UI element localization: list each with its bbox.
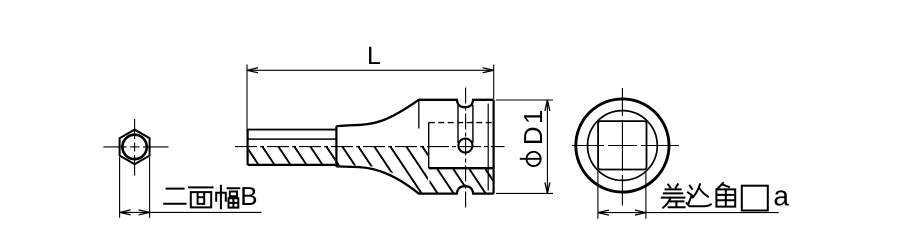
- extension line left (hex width): [119, 157, 121, 218]
- centerline vertical (hex view): [134, 119, 136, 176]
- arrowhead a right: [635, 210, 646, 215]
- square hole hidden top line (dashed): [429, 122, 494, 124]
- hatching cylinder wall left of hole: [210, 140, 556, 203]
- centerline vertical (right view): [621, 88, 623, 206]
- inner circle (chamfer): [588, 111, 658, 181]
- extension line right (square a): [645, 171, 647, 219]
- label a: [775, 190, 789, 205]
- dimension L: [247, 47, 494, 133]
- label L: [369, 47, 380, 64]
- dimension line a with leader: [598, 212, 779, 214]
- bit top edge: [248, 129, 337, 131]
- label phi symbol (rotated): [527, 152, 541, 166]
- arrowhead left: [120, 210, 131, 215]
- centerline horizontal (hex view): [103, 146, 168, 148]
- bit bottom edge (section boundary): [248, 164, 337, 166]
- dimension line D1: [546, 100, 548, 193]
- groove wall left: [457, 105, 459, 143]
- extension line top (D1): [496, 99, 553, 101]
- centerline horizontal (right view): [572, 145, 679, 147]
- hatching bit section: [210, 140, 556, 203]
- dimension phi D1: [496, 100, 553, 193]
- arrowhead L right: [483, 68, 494, 73]
- kanji 差: [662, 184, 685, 207]
- bit left face: [247, 130, 249, 165]
- pin hole circle: [458, 139, 472, 153]
- arrowhead L left: [247, 68, 258, 73]
- square hole bottom line (section): [429, 167, 494, 169]
- square drive hole: [598, 121, 646, 169]
- kanji 二: [164, 189, 185, 204]
- pin hole vertical centerline: [465, 88, 467, 210]
- hatching below square hole: [210, 140, 556, 203]
- label 二面幅B: [164, 186, 239, 208]
- kanji 面: [189, 187, 213, 207]
- label 差込角□a: [662, 183, 768, 211]
- dimension line B with leader: [120, 211, 262, 213]
- hexagon (across flats B): [120, 130, 150, 165]
- top outline: nose, flare, cylinder with groove dip: [336, 100, 493, 126]
- socket nose face: [335, 126, 337, 167]
- arrowhead D1 bottom: [545, 182, 550, 193]
- dimension line L: [247, 69, 494, 71]
- square hole inner end line: [428, 123, 430, 169]
- cylinder start edge line: [418, 100, 420, 129]
- square symbol: [742, 186, 768, 211]
- label D (rotated): [524, 128, 542, 143]
- extension line bottom (D1): [496, 192, 553, 194]
- extension line right (L): [493, 65, 495, 99]
- kanji 込: [687, 184, 711, 206]
- inscribed circle of hex bit: [122, 135, 146, 159]
- bit hex edge line: [248, 138, 337, 140]
- left view: hex end view of bit: [103, 119, 261, 218]
- extension line left (square a): [597, 171, 599, 219]
- groove wall right: [472, 105, 474, 143]
- extension line left (L): [246, 65, 248, 134]
- label 1 (rotated): [524, 111, 542, 122]
- right view: drive end view: [572, 88, 779, 219]
- kanji 角: [716, 183, 735, 207]
- hatching flare section: [210, 140, 556, 203]
- arrowhead right: [139, 210, 150, 215]
- axis centerline: [235, 146, 505, 148]
- extension line right (hex width): [149, 157, 151, 218]
- label B: [242, 187, 256, 205]
- bottom outline: nose, flare, cylinder with groove hump: [336, 166, 493, 193]
- kanji 幅: [216, 186, 239, 208]
- arrowhead D1 top: [545, 100, 550, 111]
- right end face: [493, 100, 495, 194]
- outer circle (body OD): [576, 99, 669, 192]
- middle view: socket side half-section: [235, 88, 505, 210]
- arrowhead a left: [598, 210, 609, 215]
- end chamfer line: [487, 104, 489, 191]
